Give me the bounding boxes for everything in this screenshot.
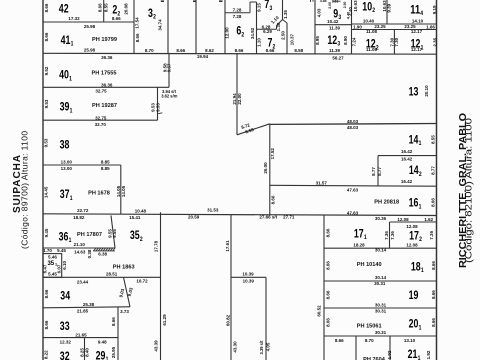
svg-text:14.63: 14.63 (74, 250, 86, 255)
svg-text:8.58: 8.58 (294, 48, 303, 53)
hatched passage strip (93, 250, 115, 252)
svg-text:2.35: 2.35 (432, 37, 437, 46)
svg-text:9.53: 9.53 (44, 138, 49, 147)
svg-text:16.42: 16.42 (401, 157, 413, 162)
svg-text:18.28: 18.28 (353, 242, 365, 247)
wire lot34 right slant (124, 277, 131, 306)
svg-text:10.63: 10.63 (353, 0, 358, 12)
svg-text:8.66: 8.66 (97, 3, 102, 12)
wire lot42/2 boundary (103, 0, 105, 22)
wire right column left edge (323, 215, 325, 360)
svg-text:35: 35 (130, 228, 140, 242)
wire lot7-3 left edge (256, 2, 258, 54)
svg-text:42: 42 (59, 2, 69, 16)
svg-text:8.66: 8.66 (325, 290, 330, 299)
wire central long line L3 (270, 184, 437, 187)
svg-text:9.48: 9.48 (98, 339, 107, 344)
svg-text:1.35: 1.35 (283, 10, 288, 19)
wire central vertical V2 (230, 215, 232, 360)
wire lot36 bottom (43, 247, 115, 249)
wire central vertical x270 (269, 124, 271, 216)
svg-text:31.57: 31.57 (316, 180, 328, 185)
svg-text:11.39: 11.39 (329, 48, 341, 53)
svg-text:12.08: 12.08 (406, 224, 418, 229)
svg-text:14: 14 (409, 132, 419, 146)
svg-text:32.70: 32.70 (95, 122, 107, 127)
wire lot8 top tick b (312, 0, 314, 2)
svg-text:25.98: 25.98 (84, 24, 96, 29)
wire lot7-2 corner diagonal (283, 20, 288, 24)
svg-text:10: 10 (362, 0, 372, 13)
wire lot17-2 box top (390, 221, 437, 223)
svg-text:9.52: 9.52 (44, 66, 49, 75)
wire top cut label speck b (193, 0, 197, 2)
svg-text:38: 38 (60, 137, 70, 151)
svg-text:0.38: 0.38 (87, 249, 92, 258)
svg-text:14.05: 14.05 (121, 185, 126, 197)
svg-text:40: 40 (59, 68, 69, 82)
wire lot19 row bottom (324, 307, 437, 309)
svg-text:8.66: 8.66 (44, 320, 49, 329)
wire lot7-2/8 boundary (286, 23, 288, 54)
svg-text:10.39: 10.39 (243, 279, 255, 284)
svg-text:17.32: 17.32 (68, 16, 80, 21)
svg-text:56.27: 56.27 (332, 56, 344, 61)
svg-text:5.46: 5.46 (48, 254, 57, 259)
svg-text:25.98: 25.98 (84, 48, 96, 53)
svg-text:1.66: 1.66 (426, 24, 435, 29)
wire lot14-2 left edge (377, 156, 379, 186)
wire lot42 bottom (43, 21, 134, 23)
wire central long line L2 (270, 123, 437, 126)
wire lot39 right edge (157, 87, 159, 120)
wire lot8/9 boundary (314, 0, 316, 54)
wire lot6 notch horizontal (225, 12, 250, 14)
svg-text:11: 11 (410, 2, 420, 16)
svg-text:32: 32 (60, 349, 70, 360)
wire lot20 row bottom (324, 335, 437, 337)
svg-text:12.00: 12.00 (225, 27, 230, 39)
wire lot14-1 bottom (378, 155, 437, 157)
svg-text:8.66: 8.66 (325, 261, 330, 270)
wire lot39 right tick (158, 113, 163, 114)
svg-text:22.72: 22.72 (77, 208, 89, 213)
svg-text:8.66: 8.66 (111, 317, 116, 326)
svg-text:7.36: 7.36 (429, 230, 434, 239)
svg-text:34: 34 (60, 289, 70, 303)
svg-text:15.41: 15.41 (129, 215, 141, 220)
svg-text:7.30: 7.30 (394, 37, 399, 46)
wire lot10/11 boundary (386, 0, 388, 24)
svg-text:30.14: 30.14 (375, 248, 387, 253)
wire lot38 bottom (43, 164, 121, 166)
svg-text:2.50: 2.50 (281, 31, 286, 40)
svg-text:16.42: 16.42 (401, 179, 413, 184)
wire lot7 step vertical (276, 26, 278, 30)
svg-text:9.39: 9.39 (387, 3, 392, 12)
wire block left edge (42, 0, 44, 360)
wire lot40 right edge (168, 54, 170, 88)
svg-text:PH 19287: PH 19287 (92, 103, 117, 109)
svg-text:3.39 s/t: 3.39 s/t (259, 340, 264, 355)
svg-text:1.10: 1.10 (257, 38, 262, 47)
svg-text:PH 17555: PH 17555 (92, 70, 117, 76)
svg-text:8.66: 8.66 (325, 318, 330, 327)
svg-text:8.85: 8.85 (101, 166, 110, 171)
svg-text:8.40: 8.40 (84, 348, 89, 357)
svg-text:2.50: 2.50 (343, 1, 347, 8)
svg-text:3.61: 3.61 (332, 0, 339, 4)
svg-text:6.29: 6.29 (263, 29, 272, 34)
svg-text:1.70: 1.70 (43, 248, 52, 253)
svg-text:8.62: 8.62 (205, 48, 214, 53)
svg-text:PH 1863: PH 1863 (113, 264, 135, 270)
svg-text:1.92: 1.92 (387, 350, 392, 359)
wire lot5/6 boundary (224, 0, 226, 54)
wire central vertical V3 (265, 277, 267, 360)
svg-text:33: 33 (60, 319, 70, 333)
wire lot6 notch vertical (249, 2, 251, 13)
svg-text:8.77: 8.77 (371, 167, 376, 176)
wire top row bottom long line (43, 52, 437, 55)
svg-text:16.42: 16.42 (401, 149, 413, 154)
wire lot12 row top (352, 29, 437, 31)
svg-text:4.40: 4.40 (348, 7, 353, 16)
svg-text:PH 1678: PH 1678 (88, 190, 110, 196)
svg-text:1.92: 1.92 (426, 350, 431, 359)
svg-text:14.45: 14.45 (44, 186, 49, 198)
svg-text:9.57: 9.57 (167, 63, 172, 72)
svg-text:13.10: 13.10 (404, 338, 416, 343)
svg-text:3.73: 3.73 (120, 309, 129, 314)
svg-text:8.22: 8.22 (44, 350, 49, 359)
svg-text:28.51: 28.51 (106, 272, 118, 277)
svg-text:8.66: 8.66 (431, 198, 436, 207)
wire lot17-1/17-2 boundary (389, 222, 391, 248)
svg-text:10.39: 10.39 (242, 271, 254, 276)
svg-text:36: 36 (59, 229, 69, 243)
svg-text:7.36: 7.36 (384, 231, 389, 240)
svg-text:8.70: 8.70 (145, 48, 154, 53)
wire block right edge (436, 0, 438, 360)
wire lot18 row bottom (324, 280, 437, 282)
svg-text:7.28: 7.28 (233, 14, 242, 19)
svg-text:8.55: 8.55 (103, 3, 108, 12)
svg-text:29: 29 (96, 348, 106, 360)
svg-text:14.10: 14.10 (412, 19, 424, 24)
svg-text:23.44: 23.44 (77, 280, 89, 285)
wire long line lot36 top (43, 214, 437, 216)
wire lot21 inner boundary (389, 336, 391, 360)
svg-text:27.66 s/t: 27.66 s/t (259, 215, 277, 220)
svg-text:11.08: 11.08 (366, 47, 378, 52)
wire top cut label speck a (161, 0, 164, 2)
svg-text:39: 39 (60, 100, 70, 114)
svg-text:8.70: 8.70 (365, 338, 374, 343)
svg-text:6.38: 6.38 (98, 252, 107, 257)
svg-text:8.66: 8.66 (431, 318, 436, 327)
svg-text:18: 18 (411, 259, 421, 273)
svg-text:32.75: 32.75 (95, 116, 107, 121)
svg-text:8.66: 8.66 (176, 48, 185, 53)
svg-text:37: 37 (60, 187, 70, 201)
svg-text:10.40: 10.40 (363, 19, 375, 24)
wire lot34 top (43, 276, 161, 278)
svg-text:1.90: 1.90 (353, 25, 362, 30)
svg-text:6.47: 6.47 (43, 264, 48, 273)
svg-text:48.03: 48.03 (347, 119, 359, 124)
svg-text:PH 17807: PH 17807 (77, 232, 102, 238)
svg-text:4.88: 4.88 (320, 0, 327, 3)
svg-text:10.42: 10.42 (327, 19, 339, 24)
svg-text:26.08: 26.08 (123, 3, 128, 15)
svg-text:17.54: 17.54 (135, 17, 140, 29)
svg-text:7.36: 7.36 (390, 231, 395, 240)
svg-text:10.72: 10.72 (136, 279, 148, 284)
wire lot7-3/8 boundary (282, 0, 284, 20)
svg-text:27.71: 27.71 (283, 215, 295, 220)
wire lot40 bottom (43, 86, 169, 88)
svg-text:1.30: 1.30 (276, 22, 281, 31)
svg-text:8.66: 8.66 (235, 48, 244, 53)
svg-text:22.00: 22.00 (237, 93, 242, 105)
svg-text:17: 17 (354, 226, 364, 240)
svg-text:9.19: 9.19 (432, 5, 437, 14)
svg-text:8.66: 8.66 (44, 3, 49, 12)
svg-text:34.74: 34.74 (157, 19, 162, 31)
svg-text:14: 14 (409, 163, 419, 177)
svg-text:8.55: 8.55 (431, 135, 436, 144)
svg-text:5.45: 5.45 (57, 248, 66, 253)
svg-text:48.03: 48.03 (347, 125, 359, 130)
wire lot9 top line (333, 0, 341, 2)
svg-text:13.00: 13.00 (61, 166, 73, 171)
svg-text:47.63: 47.63 (347, 210, 359, 215)
svg-text:21.65: 21.65 (75, 333, 87, 338)
svg-text:31.53: 31.53 (207, 207, 219, 212)
svg-text:18.82: 18.82 (73, 215, 85, 220)
svg-text:17.61: 17.61 (225, 240, 230, 252)
svg-text:PH 10140: PH 10140 (357, 262, 382, 268)
svg-text:9.45: 9.45 (44, 228, 49, 237)
svg-text:8.77: 8.77 (377, 167, 382, 176)
svg-text:26.00: 26.00 (263, 162, 268, 174)
svg-text:PH 19799: PH 19799 (92, 37, 117, 43)
svg-text:(Código: 82100) Altura: 1100: (Código: 82100) Altura: 1100 (464, 118, 474, 263)
wire lot34 bottom (43, 307, 130, 308)
svg-text:9.53: 9.53 (44, 99, 49, 108)
svg-text:8.66: 8.66 (325, 228, 330, 237)
svg-text:19: 19 (409, 288, 419, 302)
wire lot21 left boundary (355, 336, 357, 360)
svg-text:35: 35 (47, 261, 54, 267)
svg-text:36.36: 36.36 (101, 83, 113, 88)
svg-text:34.92: 34.92 (250, 27, 255, 39)
wire top cut label speck c (219, 0, 223, 2)
svg-text:8.66: 8.66 (431, 261, 436, 270)
wire lot32/29 boundary (84, 338, 86, 360)
svg-text:43.39: 43.39 (154, 340, 159, 352)
svg-text:30.14: 30.14 (375, 275, 387, 280)
wire lot7 step diagonal (277, 20, 283, 26)
svg-text:32.75: 32.75 (95, 89, 107, 94)
wire lot6 notch top tick (250, 1, 257, 3)
svg-text:11.08: 11.08 (366, 29, 378, 34)
svg-text:8.77: 8.77 (431, 166, 436, 175)
svg-text:20.10: 20.10 (424, 85, 429, 97)
svg-text:17.52: 17.52 (270, 148, 275, 160)
svg-text:7.24: 7.24 (352, 37, 357, 46)
svg-text:6.07: 6.07 (57, 264, 62, 273)
svg-text:8.66: 8.66 (135, 33, 140, 42)
wire lot39 bottom (43, 119, 158, 121)
svg-text:21.10: 21.10 (74, 242, 86, 247)
svg-text:12.08: 12.08 (397, 217, 409, 222)
svg-text:8.66: 8.66 (44, 289, 49, 298)
svg-text:12.17: 12.17 (411, 47, 423, 52)
wire lot8 top tick (310, 0, 312, 2)
wire lot37 right edge (120, 165, 122, 214)
wire central vertical x237 (236, 54, 238, 135)
svg-text:(Código: 89700) Altura: 1100: (Código: 89700) Altura: 1100 (20, 131, 30, 249)
svg-text:8.95: 8.95 (315, 36, 320, 45)
wire central vertical V1 (160, 212, 162, 360)
wire central box line (231, 276, 266, 278)
svg-text:30.31: 30.31 (375, 308, 387, 313)
svg-text:36.36: 36.36 (101, 55, 113, 60)
svg-text:2.05: 2.05 (328, 2, 332, 9)
svg-text:60.52: 60.52 (316, 305, 321, 317)
svg-text:8.66: 8.66 (335, 338, 344, 343)
svg-text:1.62: 1.62 (424, 217, 433, 222)
wire lot17 row bottom (324, 247, 437, 249)
wire lot33 bottom (43, 337, 118, 339)
svg-text:10.37: 10.37 (289, 33, 294, 45)
wire lot4/5 boundary (195, 0, 197, 54)
svg-text:21: 21 (408, 347, 418, 360)
svg-text:6.10: 6.10 (62, 260, 67, 269)
svg-text:4.05: 4.05 (266, 342, 271, 351)
svg-text:61.29: 61.29 (162, 314, 167, 326)
svg-text:12.32: 12.32 (60, 339, 72, 344)
svg-text:10.48: 10.48 (135, 208, 147, 213)
svg-text:13: 13 (409, 85, 419, 99)
svg-text:8.90: 8.90 (343, 36, 348, 45)
svg-text:19.94: 19.94 (197, 54, 209, 59)
wire lot3/4 boundary (167, 0, 169, 54)
svg-text:20: 20 (409, 317, 419, 331)
svg-text:PH 15061: PH 15061 (357, 323, 382, 329)
wire lot7 step horizontal (257, 28, 277, 30)
svg-text:43.30: 43.30 (233, 341, 238, 353)
svg-text:25.38: 25.38 (83, 302, 95, 307)
svg-text:4.03: 4.03 (316, 8, 321, 17)
svg-text:PH 20818: PH 20818 (374, 200, 399, 206)
lot 35-1 small box (43, 254, 62, 278)
svg-text:9.15: 9.15 (256, 3, 261, 12)
svg-text:12: 12 (327, 33, 337, 47)
wire central diagonal (237, 124, 270, 135)
svg-text:16: 16 (409, 196, 419, 210)
svg-text:30.36: 30.36 (375, 216, 387, 221)
svg-text:8.66: 8.66 (112, 16, 121, 21)
svg-text:11.39: 11.39 (329, 25, 341, 30)
svg-text:21.85: 21.85 (77, 309, 89, 314)
wire lot12-2/12-1 boundary (393, 30, 395, 54)
svg-text:30.31: 30.31 (375, 302, 387, 307)
svg-text:8.66: 8.66 (270, 195, 275, 204)
svg-text:17.78: 17.78 (154, 240, 159, 252)
wire lot10-11 bottom (352, 23, 437, 25)
svg-text:7.28: 7.28 (233, 8, 242, 13)
wire lot33 right edge (117, 307, 119, 338)
svg-text:8.66: 8.66 (431, 290, 436, 299)
svg-text:13.00: 13.00 (61, 160, 73, 165)
wire lot9/12-3 boundary (315, 24, 352, 26)
wire lot36 right slant (111, 215, 115, 248)
wire lot2/3 boundary (133, 0, 135, 54)
svg-text:17: 17 (409, 229, 419, 243)
svg-text:8.66: 8.66 (266, 48, 275, 53)
svg-text:30.31: 30.31 (374, 281, 386, 286)
svg-text:20.59: 20.59 (188, 215, 200, 220)
svg-text:12.08: 12.08 (406, 242, 418, 247)
svg-text:9.55: 9.55 (112, 229, 117, 238)
svg-text:3.62 s/m: 3.62 s/m (161, 93, 178, 98)
wire lot9 col/10 col boundary (351, 0, 353, 54)
svg-text:8.85: 8.85 (101, 160, 110, 165)
svg-text:30.31: 30.31 (375, 330, 387, 335)
svg-text:60.82: 60.82 (225, 314, 230, 326)
svg-text:25.95: 25.95 (111, 346, 116, 358)
svg-text:8.66: 8.66 (44, 32, 49, 41)
svg-text:41: 41 (61, 33, 71, 47)
svg-text:47.63: 47.63 (347, 188, 359, 193)
wire lot29 right edge (117, 338, 119, 360)
svg-text:12.17: 12.17 (411, 29, 423, 34)
svg-text:9.53: 9.53 (156, 103, 161, 112)
